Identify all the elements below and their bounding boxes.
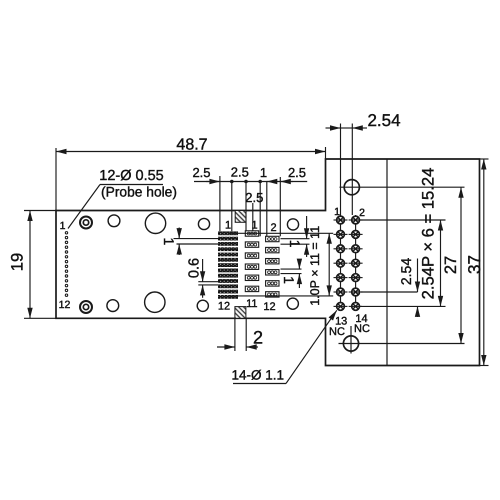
svg-text:12-Ø 0.55: 12-Ø 0.55 (99, 168, 164, 184)
hole top right (287, 219, 298, 230)
DIP pin grid rows extension lines (355, 220, 446, 306)
svg-text:37: 37 (465, 255, 484, 274)
DIP pin row 6 col 1 (334, 288, 348, 296)
svg-text:12: 12 (263, 301, 275, 313)
svg-text:(Probe hole): (Probe hole) (101, 185, 177, 200)
DIP pin row 3 col 2 (349, 245, 363, 253)
DIP pin row 1 col 2 (349, 216, 363, 224)
svg-text:1: 1 (281, 276, 297, 284)
svg-text:NC: NC (354, 323, 370, 335)
dimension 2.54P x 6 = 15.24 (440, 220, 442, 306)
svg-text:2: 2 (253, 328, 263, 348)
svg-text:2: 2 (359, 207, 365, 219)
dimension 0.6 (198, 259, 218, 298)
DIP pin row 4 col 1 (334, 259, 348, 267)
hole bottom large (145, 292, 165, 312)
board outline (cross-shaped adapter PCB) (56, 159, 480, 366)
hole top mid (198, 218, 209, 229)
svg-text:48.7: 48.7 (176, 137, 207, 154)
svg-text:19: 19 (9, 253, 27, 271)
chain dimension dots (230, 180, 262, 184)
svg-text:0.6: 0.6 (186, 258, 202, 278)
top hatch square pad (235, 211, 246, 223)
dimension 1.0P x 11 = 11 (228, 233, 333, 296)
ring pad top (80, 217, 92, 229)
bottom hatch square pad (235, 307, 246, 319)
svg-text:1: 1 (60, 220, 66, 232)
svg-text:11: 11 (246, 298, 257, 310)
DIP pin row 2 col 2 (349, 231, 363, 239)
dimension 2.54 (top of DIP) (326, 124, 368, 307)
probe holes column (65, 232, 67, 297)
svg-text:NC: NC (329, 326, 345, 338)
svg-text:2.54P × 6 = 15.24: 2.54P × 6 = 15.24 (419, 168, 438, 300)
svg-text:27: 27 (442, 256, 460, 274)
chain dimension line 2.5/2.5/2.5/1/2.5 (194, 181, 307, 183)
extension line from top hole (27 dim) (340, 186, 465, 188)
DIP mount hole bottom (343, 326, 358, 354)
dimension 27 (460, 187, 462, 343)
DIP pin row 2 col 1 (334, 231, 348, 239)
svg-text:2.5: 2.5 (245, 190, 263, 205)
dimension 37 (480, 159, 489, 366)
DIP pin row 4 col 2 (349, 259, 363, 267)
hole bottom right (287, 298, 298, 309)
svg-text:2.54: 2.54 (367, 111, 400, 130)
dimension 19 (24, 211, 56, 319)
dimension 1 (left of pads) (174, 228, 219, 256)
svg-text:2: 2 (270, 222, 276, 234)
SOP middle pad column (odd pins 1-11) (245, 231, 258, 292)
svg-text:2.54: 2.54 (398, 258, 414, 285)
dimension 1 (lower right of pads) (281, 259, 302, 288)
DIP pin row 6 col 2 (349, 288, 363, 296)
DIP pin row 5 col 1 (334, 274, 348, 282)
svg-text:1: 1 (334, 206, 340, 218)
inner board edge line (386, 159, 388, 366)
SOP left pad column (12 fine-pitch pads) (218, 231, 238, 298)
svg-text:1: 1 (287, 240, 303, 248)
svg-text:2.5: 2.5 (192, 165, 210, 180)
dimension 1 (upper right of pads) (281, 216, 310, 257)
ring pad bottom (80, 301, 92, 313)
DIP pin row 1 col 1 (334, 216, 348, 224)
chain extension lines (220, 176, 280, 236)
DIP pin row 7 col 1 (334, 303, 348, 311)
SOP right pad column (even pins 2-12) (266, 236, 279, 297)
svg-text:12: 12 (218, 301, 230, 313)
svg-text:2.5: 2.5 (288, 165, 306, 180)
DIP pin row 7 col 2 (349, 303, 362, 311)
hole top small (108, 215, 120, 227)
svg-text:12: 12 (59, 299, 71, 311)
svg-text:1: 1 (225, 220, 231, 232)
svg-text:2.5: 2.5 (231, 165, 249, 180)
hole bottom small (107, 300, 119, 312)
svg-text:1: 1 (161, 238, 177, 246)
hole top large (145, 213, 165, 233)
hole bottom mid (197, 300, 208, 311)
DIP pin row 3 col 1 (334, 245, 348, 253)
extension line from bottom hole (27 dim) (339, 343, 465, 345)
svg-text:14-Ø 1.1: 14-Ø 1.1 (232, 367, 285, 382)
dimension 2 (bottom) (217, 318, 258, 351)
dimension 48.7 (56, 147, 326, 211)
DIP pin row 5 col 2 (349, 274, 363, 282)
svg-text:1.0P × 11 = 11: 1.0P × 11 = 11 (308, 226, 322, 306)
DIP mount hole top (344, 180, 359, 195)
dimension 2.54 (right, single pitch) (417, 259, 419, 318)
svg-text:1: 1 (260, 165, 267, 180)
